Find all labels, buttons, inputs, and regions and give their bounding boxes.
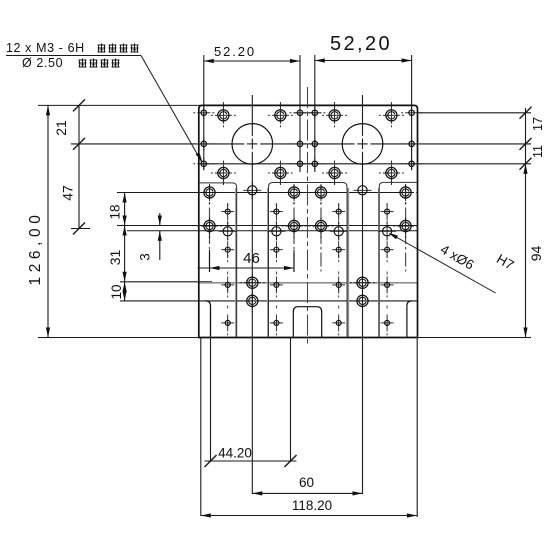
wire slot line y=225.5 (117, 225, 418, 227)
svg-text:12 x M3 - 6H: 12 x M3 - 6H (6, 41, 85, 55)
step fillet bottom left (206, 301, 211, 338)
wire row line y=143.9 centerline segments (71, 143, 531, 145)
svg-text:44.20: 44.20 (218, 446, 252, 461)
holes small cross row y=284.9 (221, 276, 393, 297)
wire top edge extension line left (38, 104, 201, 106)
wire extension line x=411.6 above plate (52,20 right) (411, 55, 413, 170)
holes small cross row y=322.9 (221, 314, 393, 335)
wire row line y=282 left extension (120, 281, 212, 283)
holes small cross row y=211.6 (221, 203, 393, 224)
wire gray row line y=282.8 through plate (199, 282, 418, 284)
dimension 126,00 left (27, 105, 50, 337)
wire bottom edge extension line (38, 337, 531, 339)
svg-text:52,20: 52,20 (330, 33, 392, 55)
wire extension line x=200.8 below plate (118.20 left) (200, 338, 202, 517)
holes M3 row1 (211, 107, 404, 128)
dimension 18 (108, 193, 127, 301)
svg-text:18: 18 (108, 204, 123, 219)
large bore circle left (232, 124, 273, 165)
svg-text:126,00: 126,00 (27, 210, 44, 285)
wire row extension line y=112.8 right side (418, 112, 532, 114)
holes double-circle row y=192.5 (197, 184, 418, 205)
dimension 11 right (520, 145, 546, 170)
svg-text:47: 47 (60, 185, 76, 201)
svg-text:21: 21 (53, 120, 69, 136)
callout diameter 2.50 thread pilot note (22, 56, 120, 70)
wire centerline column x=252.3 through circle 1 (251, 95, 253, 494)
dimension 47 (60, 185, 91, 234)
svg-text:31: 31 (107, 250, 123, 266)
holes diameter6 H7 row y=231.3 (219, 222, 396, 240)
dimension 52,20 right (315, 33, 412, 63)
svg-text:Ø 2.50: Ø 2.50 (22, 56, 63, 70)
wire extension line x=294 for 46 dim (293, 250, 295, 272)
pocket P2 outline (269, 183, 348, 338)
svg-text:17: 17 (531, 117, 545, 131)
dimension 17 right (520, 107, 546, 164)
holes double-circle row y=300.9 (240, 292, 375, 313)
svg-text:3: 3 (138, 253, 153, 261)
wire row1 segment between pair holes (294, 112, 322, 114)
wire row line y=163.8 through plate with right extension (199, 163, 531, 165)
svg-text:52.20: 52.20 (214, 44, 256, 59)
holes rib row y=190 (243, 181, 371, 199)
holes small row2 (193, 137, 422, 150)
wire gray slot edge x=236 (235, 188, 237, 338)
holes double-circle row y=282.7 (240, 274, 375, 295)
dimension 21 (53, 99, 85, 228)
wire part centerline dash-dot x=307.5 (307, 87, 309, 345)
holes M3 row3 (211, 165, 404, 186)
svg-text:118.20: 118.20 (292, 498, 332, 513)
svg-text:46: 46 (243, 250, 260, 267)
wire slot line y=230.8 (127, 230, 418, 232)
svg-text:60: 60 (299, 475, 314, 490)
wire extension line x=290.5 below plate (44.20 right) (290, 338, 292, 463)
wire M3 column ticks crossing top edge (223, 102, 391, 108)
wire extension line x=314.8 center pair right (314, 55, 316, 172)
holes small row1 (193, 106, 422, 119)
pocket P3 outline (379, 182, 417, 337)
wire extension line x=209.5 for 46 dim (209, 250, 211, 272)
wire step line y=300.9 with left extension (120, 300, 418, 302)
wire double-circle column centerlines (210, 185, 406, 272)
wire extension line x=300 center pair left (299, 55, 301, 172)
svg-text:94: 94 (528, 246, 544, 262)
callout 12 x M3 - 6H thread note with leader (6, 41, 202, 162)
dimension 60 bottom (252, 475, 362, 496)
wire centerline column x=362.5 through circle 2 (362, 95, 364, 494)
center tab outline (293, 307, 321, 338)
wire cross column centerlines mid-band (228, 204, 387, 332)
large bore circle right (342, 124, 383, 165)
wire extension line x=203.8 above plate (52.20 left) (203, 55, 205, 170)
wire M3 column pocket-edge ticks (223, 161, 391, 185)
dimension 52.20 left (204, 44, 300, 63)
dimension 10 (109, 282, 127, 301)
wire extension line x=417.2 below plate (118.20 right) (416, 338, 418, 518)
wire extension line x=210.5 below plate (44.20 left) (210, 307, 212, 463)
wire gray slot edge x=268 (267, 188, 269, 338)
svg-text:11: 11 (531, 145, 545, 158)
svg-text:10: 10 (109, 284, 124, 299)
wire long line y=192.5 through pockets (117, 192, 410, 194)
step fillet bottom right (407, 301, 412, 338)
callout 4 x diameter 6 H7 with leader (388, 233, 516, 293)
dimension 31 (107, 226, 127, 282)
holes small row3 (193, 157, 422, 170)
plate outline (199, 105, 418, 337)
pocket P1 outline (199, 183, 237, 338)
holes small cross row y=249.7 (221, 241, 393, 262)
wire gray slot edge x=348.3 (347, 188, 349, 338)
dimension 44.20 bottom (205, 446, 297, 468)
dimension 94 right (523, 164, 544, 338)
dimension 118.20 bottom (201, 498, 417, 518)
holes double-circle row y=226 (197, 218, 418, 239)
wire gray slot edge x=378.8 (378, 188, 380, 338)
dimension 46 (198, 250, 295, 270)
dimension 3 (138, 213, 162, 261)
